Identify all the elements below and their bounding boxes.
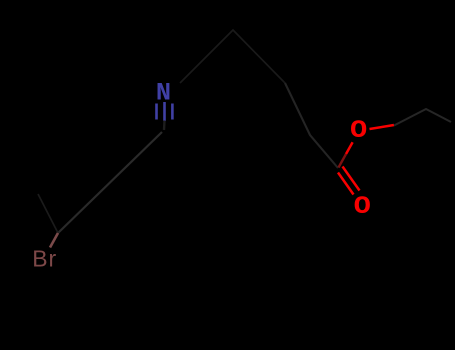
double bond C=O line 2 (red) [338,173,354,195]
bond: ester C-O single, oxygen-side half (bright red) [346,142,353,154]
svg-text:O: O [350,117,367,145]
bond: ethyl CH2-CH3 tail (gray) [394,109,451,126]
svg-text:N: N [156,79,171,108]
bond: short methyl branch from Br-bearing carbon up-left [38,194,58,233]
svg-text:Br: Br [32,245,57,271]
bond: faint chain over top apex (CH2-CH2 run) [180,30,285,83]
svg-text:O: O [354,194,371,222]
double bond C=O line 1 (red) [343,167,360,191]
bond: alkyl chain from Br-bearing carbon up-right to nitrile junction [58,132,162,233]
triple bond C#N line 1 (blue) [155,104,158,120]
atom label O (carbonyl oxygen) [354,194,371,222]
triple bond C#N line 3 (blue) [171,104,174,120]
bond: C-Br (maroon) [50,233,58,248]
bond: ester C-O single, carbon-side half (dark red) [339,154,347,168]
bond: O-CH2 oxygen-side half (red) [370,125,395,129]
atom label O (ether oxygen) [350,117,367,145]
bond: chain descent to ester carbonyl carbon [285,83,338,168]
triple bond C#N line 2 (blue, center) [163,102,166,121]
bond: dark carbon-side stub of nitrile [163,121,166,131]
